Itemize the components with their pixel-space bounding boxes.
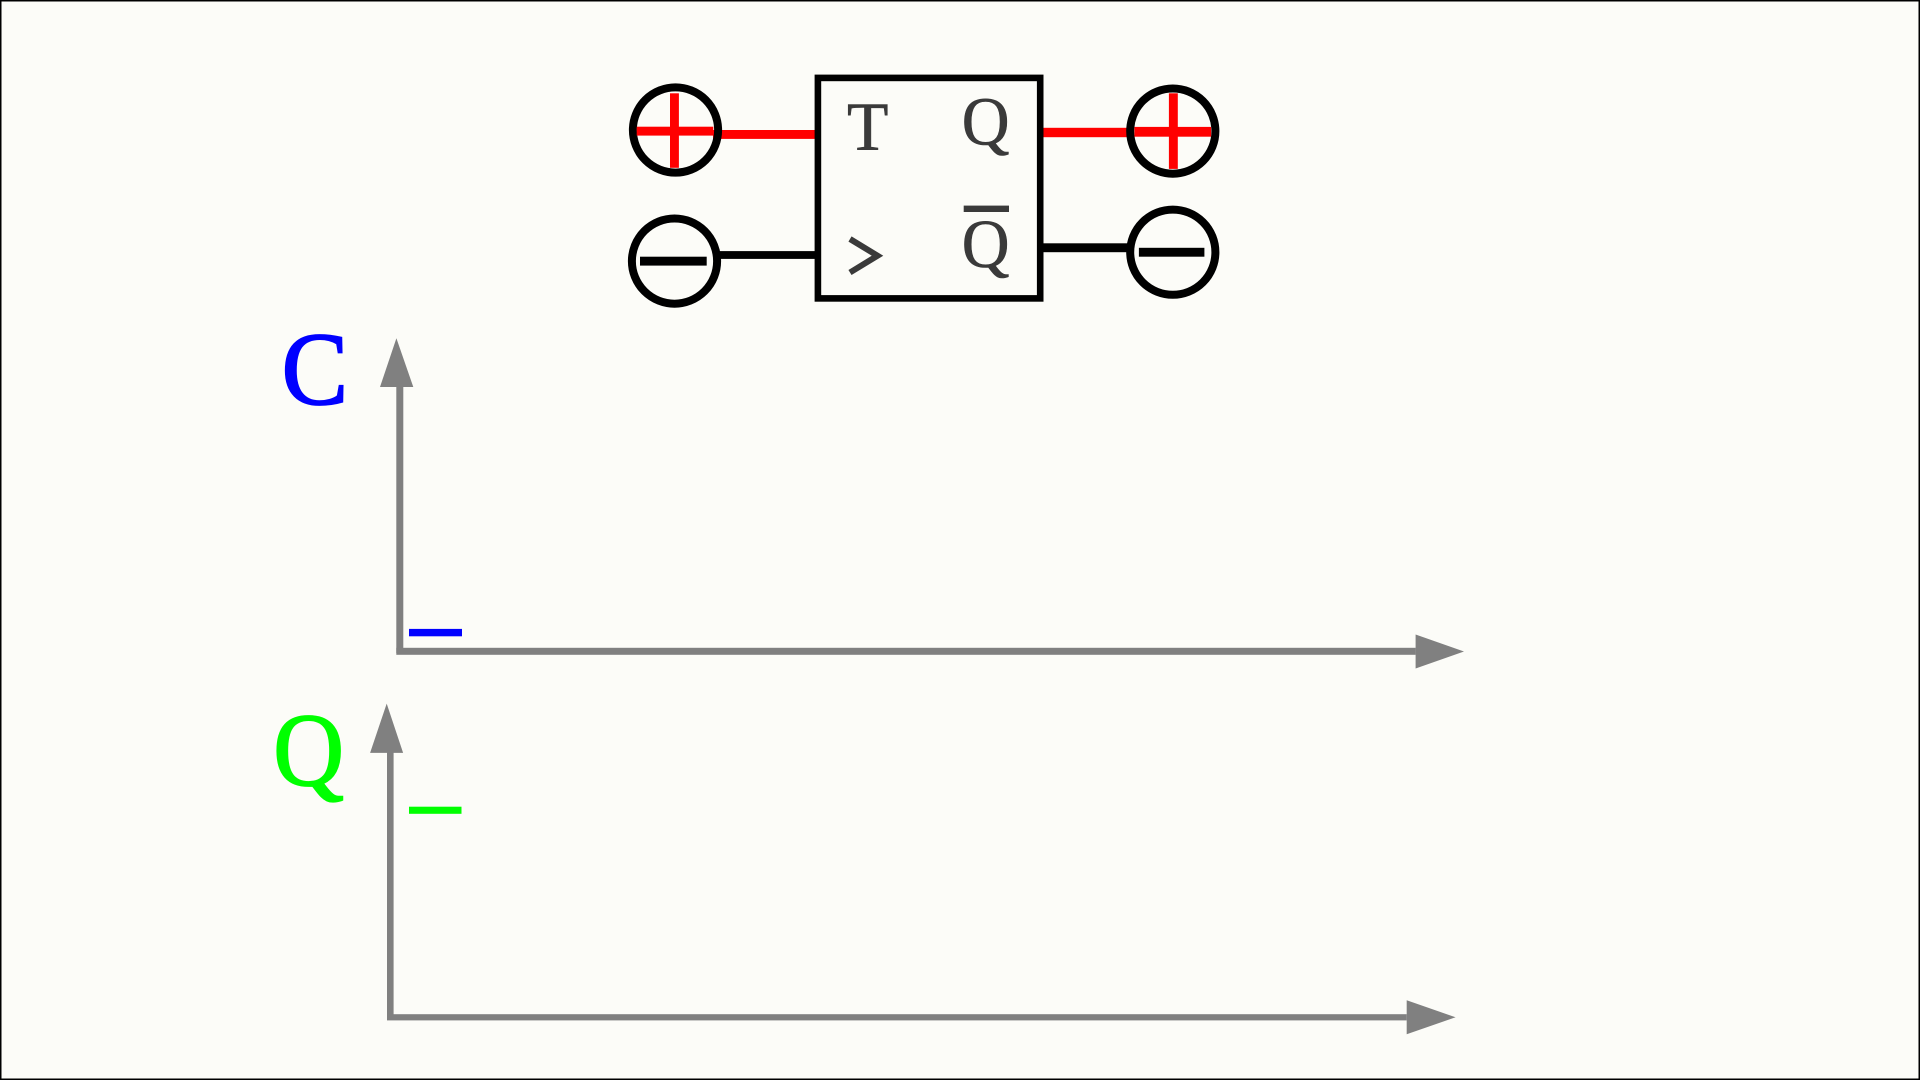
svg-text:T: T [847, 88, 888, 165]
svg-text:C: C [282, 312, 349, 427]
svg-text:Q: Q [962, 83, 1010, 160]
svg-text:Q: Q [273, 692, 344, 807]
svg-text:Q: Q [962, 206, 1010, 283]
